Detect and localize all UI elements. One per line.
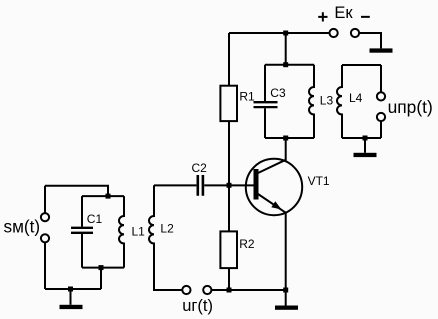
svg-text:L4: L4	[349, 91, 363, 105]
terminal + of Ek	[330, 29, 338, 37]
svg-text:uпр(t): uпр(t)	[388, 97, 433, 117]
wire ground stub under L4	[364, 138, 366, 153]
node dot C1 tank bottom	[99, 265, 104, 270]
terminal source upper	[41, 213, 49, 221]
inductor L2	[149, 185, 182, 290]
capacitor C2	[198, 175, 203, 196]
svg-text:C2: C2	[192, 161, 208, 175]
wire C1 top lead	[81, 196, 83, 227]
wire collector net vertical from top rail to tank top	[285, 33, 287, 65]
wire source top lead	[44, 186, 46, 213]
node dot tank top	[283, 62, 288, 67]
ground at emitter node	[275, 306, 298, 310]
svg-text:uг(t): uг(t)	[182, 297, 213, 315]
wire R2 bottom lead	[228, 268, 230, 290]
wire ground stub bottom-left	[70, 289, 72, 305]
svg-text:sм(t): sм(t)	[4, 217, 41, 237]
wire from L2 to C2	[154, 184, 196, 186]
node dot C1 tank top	[106, 194, 111, 199]
node dot base	[227, 183, 232, 188]
wire source bottom lead	[44, 242, 46, 289]
svg-text:Ек: Ек	[334, 4, 353, 22]
wire C1 bottom lead	[81, 234, 83, 268]
wire C3/L3 tank bottom side	[265, 137, 314, 139]
wire bottom left from source	[45, 288, 101, 290]
node dot tank bottom / collector	[283, 136, 288, 141]
node dot top rail	[283, 31, 288, 36]
wire bottom from generator terminal to emitter node	[212, 289, 286, 291]
svg-text:L2: L2	[160, 222, 174, 236]
wire C1/L1 tank bottom side	[82, 267, 124, 269]
wire collector lead	[285, 138, 287, 161]
terminal generator left	[182, 286, 190, 294]
svg-text:C3: C3	[270, 86, 286, 100]
terminal output upper	[377, 92, 385, 100]
ground top right	[370, 48, 393, 52]
terminal source lower	[41, 234, 49, 242]
svg-text:L3: L3	[320, 93, 334, 107]
node dot emitter ground	[283, 288, 288, 293]
wire C2 to base	[204, 184, 253, 186]
base bar of VT1	[254, 169, 259, 200]
resistor R1	[220, 86, 237, 121]
wire C1/L1 tank top side	[82, 195, 124, 197]
inductor L3	[309, 65, 314, 138]
terminal - of Ek	[351, 29, 359, 37]
svg-text:L1: L1	[132, 224, 146, 238]
wire R1 bottom lead to base node	[228, 121, 230, 185]
plus sign	[318, 12, 327, 21]
wire ground stub at emitter node	[285, 290, 287, 306]
wire L4 right side to output terminals	[380, 65, 382, 138]
capacitor C1	[71, 228, 93, 233]
node dot ground bottom left	[68, 287, 73, 292]
resistor R2	[220, 231, 237, 268]
ground under L4	[354, 153, 377, 157]
wire from - terminal to ground	[359, 33, 381, 48]
svg-text:C1: C1	[87, 212, 103, 226]
inductor L1	[119, 196, 124, 268]
terminal generator right	[203, 286, 211, 294]
wire L4 tank bottom side	[342, 137, 381, 139]
wire tank bottom drop	[100, 268, 102, 289]
capacitor C3	[254, 102, 278, 107]
node dot L4 ground	[363, 136, 368, 141]
minus sign	[361, 16, 370, 18]
emitter arrow	[271, 201, 281, 209]
inductor L4	[337, 65, 342, 138]
ground bottom left	[60, 305, 83, 309]
wire emitter lead	[285, 213, 287, 290]
transistor VT1	[246, 159, 302, 215]
svg-text:R1: R1	[239, 89, 255, 103]
wire C3 top lead	[264, 65, 266, 101]
wire C3/L3 tank top side	[265, 64, 314, 66]
wire top left from source to C1 tank	[45, 186, 108, 196]
node dot R2 bottom	[227, 288, 232, 293]
wire L4 tank top side	[342, 64, 381, 66]
wire R2 top lead	[228, 185, 230, 231]
wire C3 bottom lead	[264, 108, 266, 138]
svg-text:VT1: VT1	[308, 174, 330, 188]
svg-text:R2: R2	[239, 237, 255, 251]
wire R1 top lead	[228, 33, 230, 86]
terminal output lower	[377, 113, 385, 121]
wire top rail from R1 branch to + terminal	[229, 32, 330, 34]
